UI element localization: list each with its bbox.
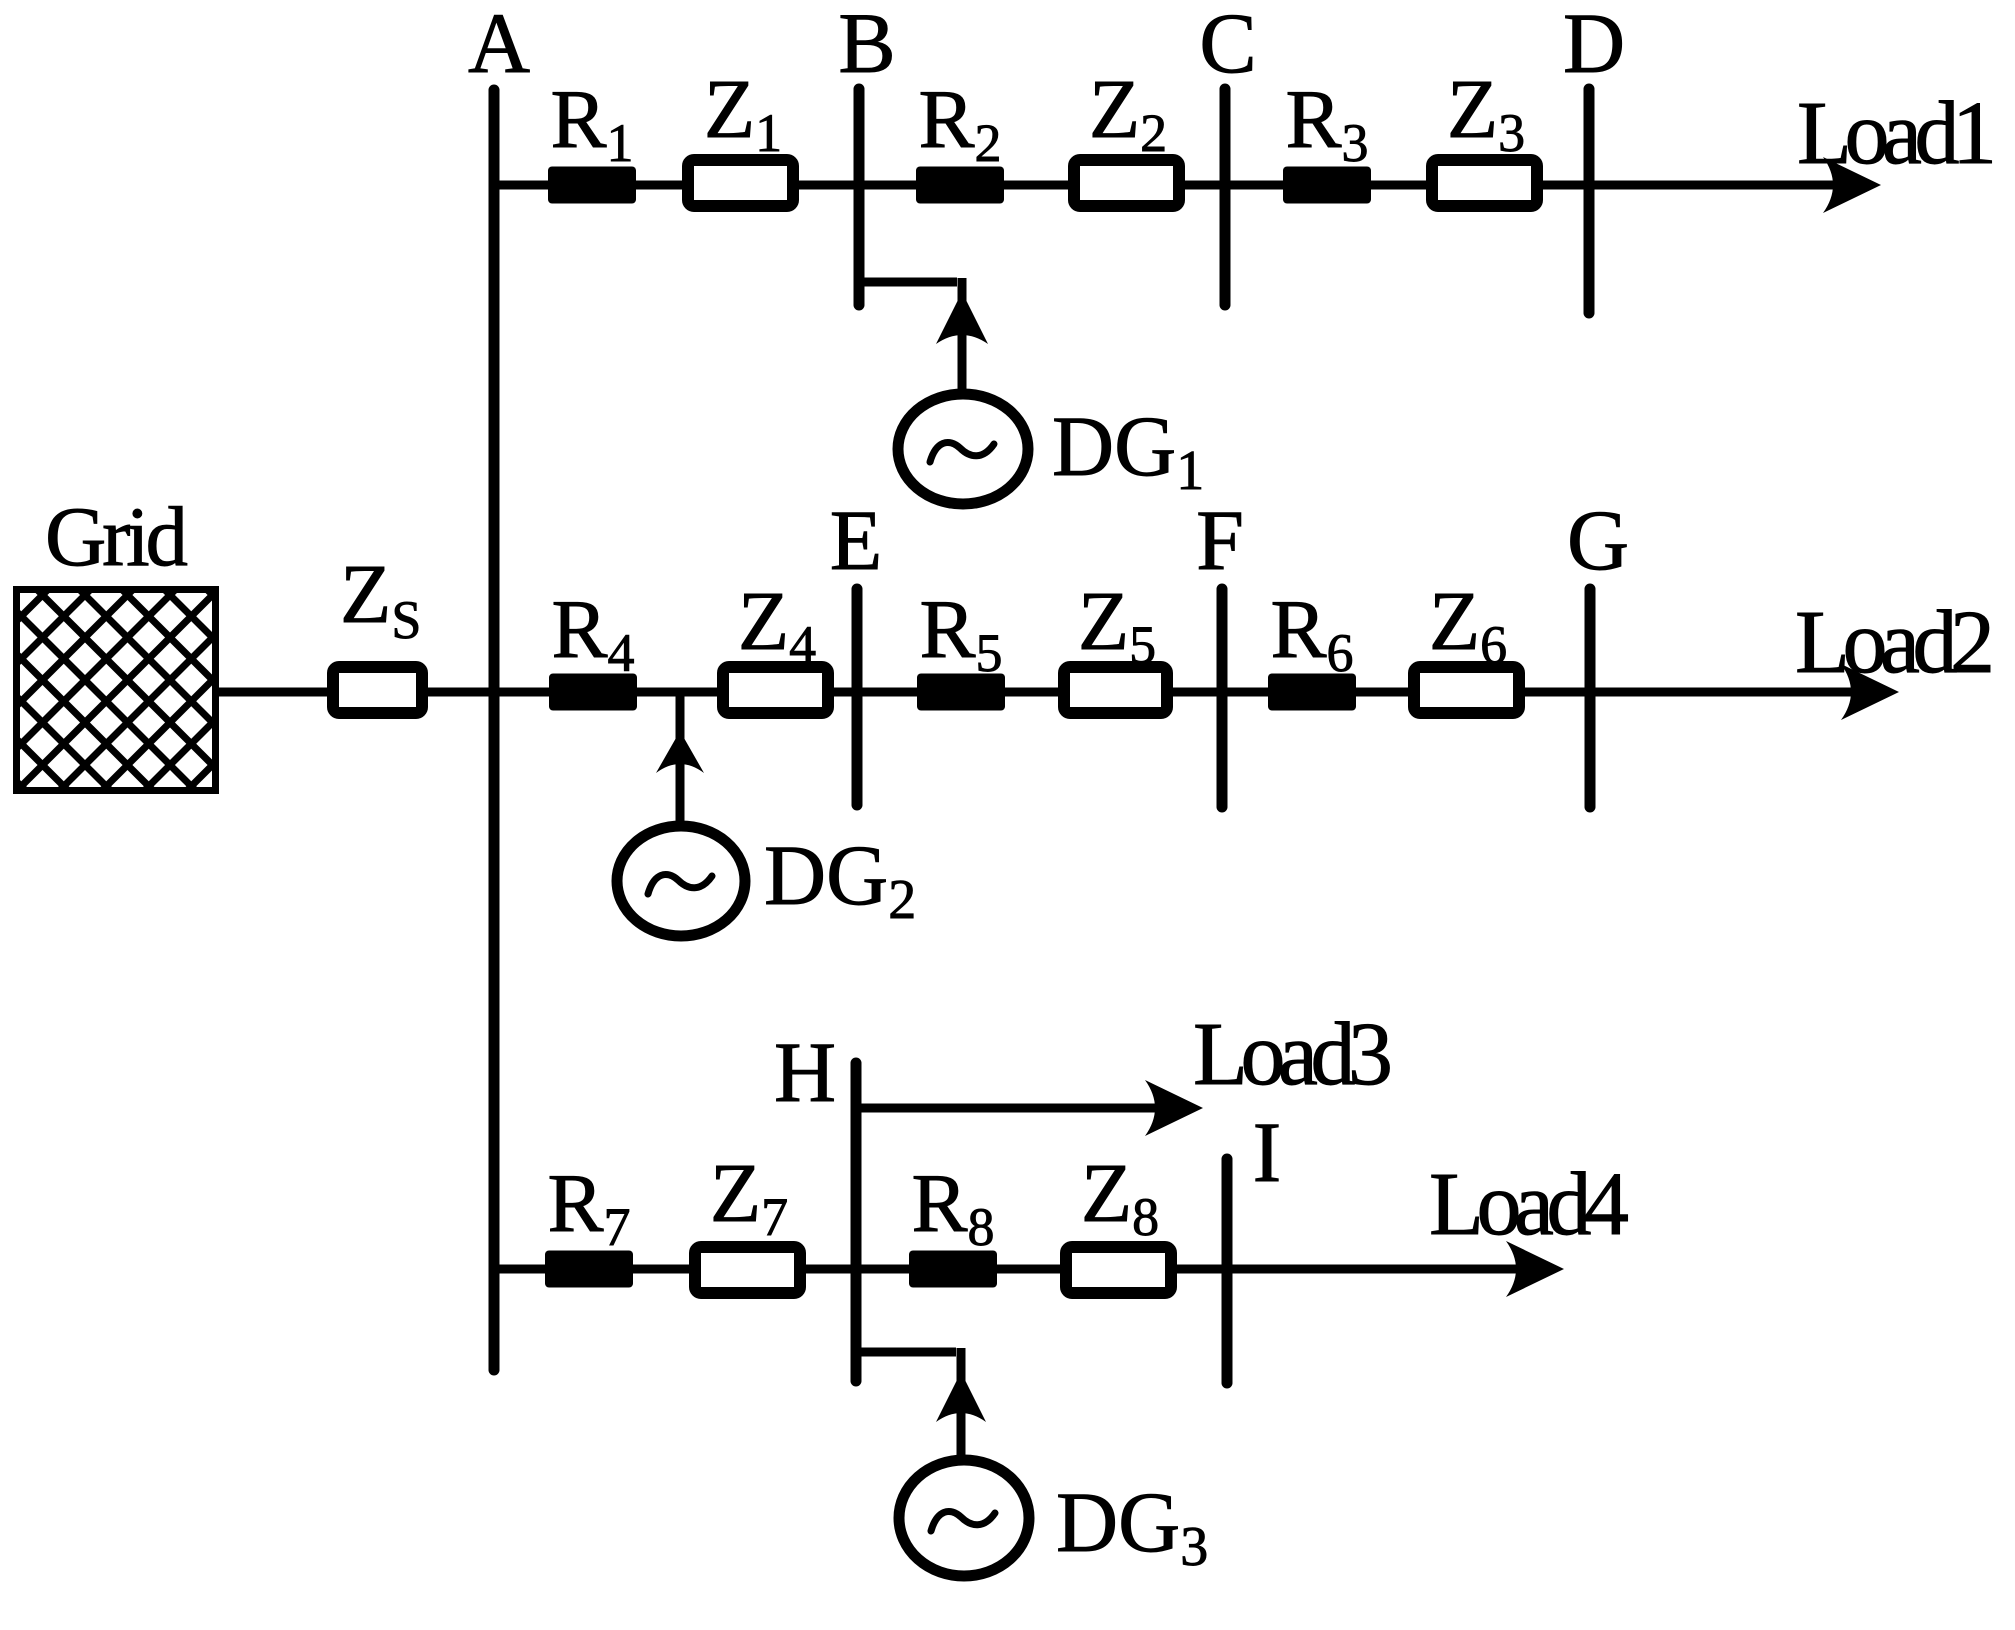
impedance Z4 (723, 667, 828, 713)
load arrow Load3 (1145, 1080, 1203, 1136)
bus A (489, 90, 500, 1370)
bus F (1217, 589, 1228, 807)
wire DG2 branch vertical from feeder2 (676, 692, 685, 822)
impedance Z5 (1064, 667, 1167, 713)
generator DG2 tilde (648, 874, 712, 894)
impedance ZS (333, 667, 422, 713)
bus C (1220, 89, 1231, 305)
svg-text:C: C (1199, 0, 1256, 91)
svg-text:F: F (1196, 492, 1244, 588)
wire from Grid through Zs and bus A to Load2 arrow (feeder2) (218, 688, 1868, 697)
bus G (1585, 589, 1596, 807)
utility grid source box (17, 590, 216, 791)
svg-text:Grid: Grid (45, 490, 188, 584)
svg-text:Load4: Load4 (1429, 1155, 1629, 1254)
resistor R2 (916, 167, 1004, 204)
wire DG3 branch vertical (957, 1348, 966, 1458)
impedance Z8 (1066, 1247, 1171, 1293)
wire Load3 branch from bus H (856, 1104, 1175, 1113)
generator DG3 tilde (931, 1511, 995, 1531)
generator DG1 arrow (936, 292, 988, 344)
svg-text:A: A (468, 0, 530, 91)
svg-text:D: D (1563, 0, 1625, 91)
svg-text:H: H (774, 1024, 836, 1120)
wire DG3 branch horizontal from bus H (856, 1348, 956, 1357)
generator DG3 arrow (936, 1372, 986, 1422)
load arrow Load4 (1506, 1241, 1564, 1297)
wire feeder3 from bus A to Load4 arrow (494, 1265, 1535, 1274)
generator DG3 circle (899, 1460, 1029, 1576)
svg-text:B: B (838, 0, 895, 91)
svg-text:Load2: Load2 (1795, 593, 1995, 692)
resistor R3 (1283, 167, 1371, 204)
svg-text:G: G (1567, 492, 1629, 588)
svg-text:E: E (830, 492, 883, 588)
impedance Z2 (1074, 160, 1179, 206)
resistor R6 (1268, 674, 1356, 711)
load arrow Load2 (1841, 664, 1899, 720)
impedance Z7 (695, 1247, 800, 1293)
bus B (854, 89, 865, 305)
generator DG2 circle (617, 826, 745, 936)
load arrow Load1 (1823, 157, 1881, 213)
resistor R8 (909, 1251, 997, 1288)
impedance Z1 (688, 160, 793, 206)
resistor R1 (548, 167, 636, 204)
resistor R4 (549, 674, 637, 711)
impedance Z3 (1432, 160, 1537, 206)
generator DG1 tilde (930, 442, 994, 462)
bus H (851, 1063, 862, 1381)
impedance Z6 (1414, 667, 1519, 713)
wire DG1 branch vertical (958, 278, 967, 392)
svg-text:I: I (1253, 1104, 1282, 1200)
svg-text:Load3: Load3 (1193, 1005, 1393, 1104)
bus E (852, 589, 863, 805)
resistor R5 (917, 674, 1005, 711)
wire feeder1 from bus A to Load1 arrow (494, 181, 1850, 190)
wire DG1 branch horizontal from bus B (859, 278, 957, 287)
bus D (1584, 89, 1595, 313)
generator DG2 arrow (656, 731, 704, 773)
svg-text:Load1: Load1 (1797, 84, 1997, 183)
bus I (1222, 1159, 1233, 1383)
resistor R7 (545, 1251, 633, 1288)
generator DG1 circle (898, 394, 1028, 504)
